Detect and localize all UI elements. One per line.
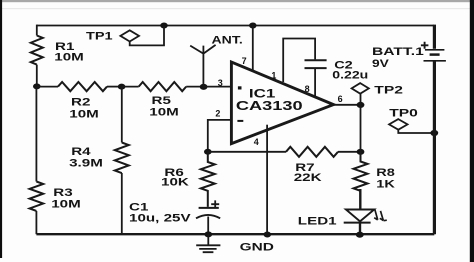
wire pin 7 lead [252,26,254,71]
svg-text:10M: 10M [149,106,179,118]
svg-text:TP0: TP0 [389,107,418,119]
node B junction dot [118,84,126,90]
svg-text:CA3130: CA3130 [236,99,303,113]
wire R2 to node B [107,86,122,88]
svg-text:7: 7 [242,56,247,66]
svg-text:10K: 10K [161,176,189,188]
wire pin 4 lead to ground rail [266,125,268,235]
test point TP1 diamond [120,30,139,41]
op-amp plus input marker [238,86,242,89]
wire top supply rail [37,25,434,27]
node C1 ground junction dot [204,231,212,237]
svg-text:9V: 9V [372,57,390,69]
test point TP0 diamond [389,119,407,130]
node C junction dot [204,149,212,155]
node antenna junction dot [200,84,208,90]
top gray edge line [0,0,474,2]
svg-text:0.22u: 0.22u [332,69,368,81]
svg-text:10u, 25V: 10u, 25V [129,212,191,224]
left border line [0,0,2,258]
wire bottom ground rail [36,233,434,235]
resistor R2 [58,82,107,91]
capacitor C1 curved bottom plate [196,215,220,218]
resistor R5 [139,82,186,91]
svg-text:LED1: LED1 [298,215,337,227]
LED LED1 cathode bar [344,222,371,224]
op-amp U1 triangle [231,62,333,144]
node A junction dot [33,83,41,89]
svg-text:10M: 10M [51,197,81,209]
svg-text:10M: 10M [54,51,84,63]
svg-text:BATT.1: BATT.1 [372,45,424,57]
wire node B down to R4 [121,87,123,143]
capacitor C2 [305,60,327,68]
LED LED1 triangle [346,210,374,222]
wire right rail battery to ground rail [433,61,436,234]
resistor R7 [286,147,338,157]
resistor R6 [201,152,215,207]
wire node A to R2 [37,86,58,88]
wire TP0 elbow to right rail [398,130,434,133]
capacitor C1 top plate [199,207,219,209]
svg-text:ANT.: ANT. [212,34,243,46]
svg-text:1: 1 [271,71,276,81]
ground symbol [196,234,220,252]
right border line [470,0,474,262]
capacitor C1 plus sign [211,200,219,208]
svg-text:8: 8 [305,84,310,94]
op-amp minus input marker [237,120,243,122]
svg-text:6: 6 [338,94,343,104]
node E output junction dot [357,102,365,108]
svg-text:2: 2 [215,109,220,119]
wire pin 1 lead and loop top [283,39,315,83]
wire C1 to ground rail [207,217,209,235]
wire R8 to LED1 [359,189,361,209]
wire R5 to antenna node [186,86,203,88]
svg-text:3.9M: 3.9M [69,156,103,168]
wire op-amp output pin 6 [334,104,361,106]
svg-text:TP1: TP1 [86,29,113,42]
wire battery top stub [433,25,436,49]
svg-text:R2: R2 [71,96,90,108]
svg-text:3: 3 [218,78,223,88]
wire output node down to node D [360,105,362,152]
wire R7 to node D [338,151,361,153]
svg-text:1K: 1K [376,177,395,190]
LED LED1 emission arrows [374,210,387,221]
wire left column top lead [36,25,38,36]
wire LED1 to ground rail [359,223,361,235]
battery plus sign [421,42,429,49]
wire pin 8 lead [314,68,316,97]
wire TP1 elbow [130,26,164,46]
node LED ground junction dot [356,232,364,238]
wire node A down to R3 [35,86,37,181]
svg-text:R5: R5 [152,94,171,106]
node pin7 junction dot on top rail [249,23,257,29]
node D junction dot [357,149,365,155]
wire node B to R5 [122,86,139,88]
resistor R4 [115,143,129,174]
faint letterbox ghost line [2,8,470,9]
svg-text:4: 4 [254,137,259,147]
node TP0 junction dot on right rail [430,130,438,136]
svg-text:TP2: TP2 [374,84,403,96]
svg-text:10M: 10M [69,107,99,119]
node TP1 junction dot on top rail [160,23,168,29]
resistor R8 [354,152,368,191]
wire pin 2 elbow [208,120,232,152]
wire TP2 stub [360,94,362,105]
node pin4 ground junction dot [264,232,272,238]
antenna ANT. [190,45,215,87]
wire R1 bottom to node A [36,65,38,87]
wire antenna node to op-amp pin 3 [204,86,232,88]
resistor R3 [30,182,44,211]
test point TP2 diamond [352,83,369,94]
svg-text:GND: GND [240,240,275,252]
wire node C to R7 [208,151,286,153]
wire R3 bottom to ground rail [35,211,37,234]
resistor R1 [31,36,43,65]
wire R4 bottom to ground rail [121,173,123,234]
battery BATT.1 plates [425,49,445,51]
svg-text:22K: 22K [294,171,322,183]
